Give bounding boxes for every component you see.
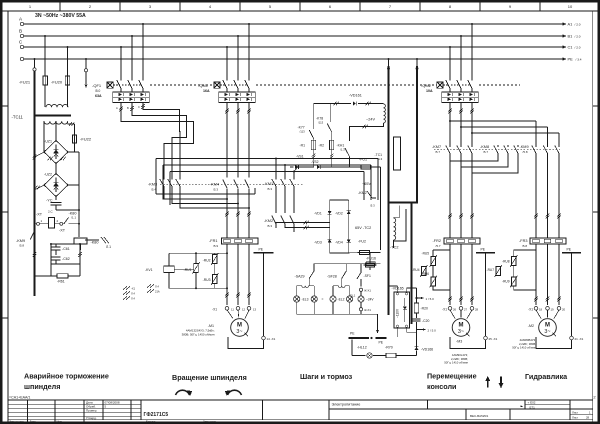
svg-text:Провер.: Провер. (86, 408, 97, 412)
svg-text:-RU7: -RU7 (487, 268, 495, 272)
svg-text:-SF1: -SF1 (364, 274, 371, 278)
svg-text:-R70: -R70 (385, 346, 393, 350)
svg-text:Ж-X1: Ж-X1 (364, 308, 371, 312)
svg-text:/ 2.0: / 2.0 (575, 46, 581, 50)
svg-text:-X1: -X1 (212, 308, 217, 312)
svg-text:26: 26 (453, 307, 457, 311)
svg-text:Утверд.: Утверд. (86, 416, 97, 420)
svg-text:-TC2: -TC2 (390, 246, 398, 250)
svg-text:-FU22: -FU22 (80, 137, 92, 142)
svg-text:21А: 21А (155, 290, 160, 294)
svg-text:-EL3: -EL3 (302, 297, 309, 301)
svg-text:/5.4: /5.4 (151, 188, 156, 192)
svg-text:-RU5: -RU5 (422, 252, 430, 256)
svg-text:-VD3: -VD3 (314, 241, 322, 245)
svg-text:/5.7: /5.7 (435, 150, 440, 154)
svg-text:-VD161: -VD161 (349, 94, 362, 98)
svg-text:C1: C1 (568, 45, 573, 50)
svg-text:PE: PE (567, 248, 572, 252)
svg-text:C: C (138, 105, 140, 109)
svg-text:-QM1: -QM1 (198, 83, 209, 88)
svg-text:/5.3: /5.3 (370, 204, 375, 208)
svg-text:-KM8: -KM8 (480, 145, 489, 149)
svg-text:/113: /113 (300, 130, 306, 134)
svg-text:/5.8: /5.8 (523, 150, 528, 154)
svg-text:A: A (116, 106, 118, 110)
svg-text:/ 2.0: / 2.0 (575, 35, 581, 39)
svg-text:-TC11: -TC11 (12, 115, 24, 120)
svg-text:B: B (127, 106, 129, 110)
svg-text:28: 28 (475, 307, 479, 311)
svg-text:-RU2: -RU2 (203, 259, 211, 263)
svg-text:-YC: -YC (46, 199, 53, 203)
svg-text:-XT: -XT (36, 213, 43, 217)
svg-text:-VS2: -VS2 (311, 160, 319, 164)
svg-text:/5.8: /5.8 (522, 244, 527, 248)
svg-text:-M1: -M1 (208, 324, 214, 328)
svg-text:380В; 50Гц; 1450 об/мин: 380В; 50Гц; 1450 об/мин (182, 333, 215, 337)
svg-text:B1: B1 (568, 34, 573, 39)
svg-text:-RU8: -RU8 (502, 260, 510, 264)
svg-text:/5.7: /5.7 (483, 150, 488, 154)
svg-text:50Гц; 1410 об/мин: 50Гц; 1410 об/мин (512, 346, 536, 350)
svg-text:-FU20: -FU20 (51, 80, 63, 85)
svg-text:/5.3: /5.3 (267, 187, 272, 191)
svg-text:-UZ1: -UZ1 (44, 140, 52, 144)
svg-text:/5.3: /5.3 (267, 224, 272, 228)
svg-text:-C20: -C20 (422, 319, 429, 323)
svg-text:Л.1: Л.1 (106, 245, 111, 249)
svg-text:-X1: -X1 (528, 308, 533, 312)
svg-text:/1.3: /1.3 (340, 148, 345, 152)
svg-text:-FR3: -FR3 (519, 239, 527, 243)
svg-text:/1.3: /1.3 (378, 157, 383, 161)
svg-text:Бланка: Бланка (146, 420, 156, 424)
svg-text:/1.1: /1.1 (71, 216, 76, 220)
svg-text:B: B (19, 29, 22, 34)
svg-text:PE: PE (259, 248, 264, 252)
svg-text:-KM9: -KM9 (520, 145, 529, 149)
svg-text:-KM7: -KM7 (432, 145, 441, 149)
svg-text:M: M (545, 323, 550, 329)
svg-text:20: 20 (562, 307, 566, 311)
svg-text:-KM2: -KM2 (358, 191, 367, 195)
svg-text:/ 3.4: / 3.4 (576, 58, 582, 62)
svg-text:-XT: -XT (59, 229, 66, 233)
svg-text:14 -X1: 14 -X1 (267, 337, 276, 341)
svg-text:3N ~50Hz ~380V 55A: 3N ~50Hz ~380V 55A (35, 13, 86, 19)
svg-text:-VD1: -VD1 (314, 212, 322, 216)
svg-text:-SA29: -SA29 (295, 275, 305, 279)
svg-text:/5.0: /5.0 (95, 89, 101, 93)
svg-text:Л.4: Л.4 (131, 292, 135, 296)
svg-text:Лист: Лист (572, 410, 579, 414)
svg-text:=: = (322, 297, 324, 301)
svg-text:13: 13 (253, 307, 257, 311)
svg-text:-R61: -R61 (57, 280, 65, 284)
svg-text:Шаги и тормоз: Шаги и тормоз (300, 372, 353, 381)
svg-text:-X1: -X1 (442, 308, 447, 312)
svg-text:63A: 63A (95, 94, 102, 98)
svg-text:-SF28: -SF28 (327, 275, 337, 279)
svg-text:28: 28 (586, 416, 590, 420)
svg-text:-KV1: -KV1 (145, 268, 153, 272)
svg-text:/5.3: /5.3 (213, 188, 218, 192)
svg-text:-R20: -R20 (421, 307, 428, 311)
svg-text:1 / 5.0: 1 / 5.0 (426, 297, 435, 301)
svg-text:~110V: ~110V (395, 308, 399, 318)
svg-text:Вращение шпинделя: Вращение шпинделя (172, 373, 247, 382)
svg-text:-VS1: -VS1 (296, 155, 304, 159)
svg-text:E71: E71 (530, 405, 536, 409)
svg-text:-KM2: -KM2 (264, 219, 273, 223)
svg-text:21 -X1: 21 -X1 (575, 337, 584, 341)
svg-text:/5.9: /5.9 (213, 244, 218, 248)
svg-text:-HL12: -HL12 (357, 346, 367, 350)
svg-text:PE: PE (481, 248, 486, 252)
svg-text:~65V: ~65V (362, 182, 371, 186)
svg-text:/5.7: /5.7 (436, 244, 441, 248)
svg-text:Изменения: Изменения (9, 420, 24, 424)
svg-text:Лист: Лист (572, 416, 579, 420)
svg-text:M: M (459, 323, 464, 329)
svg-text:-FU16: -FU16 (366, 257, 376, 261)
svg-text:+ E02: + E02 (528, 401, 536, 405)
svg-text:3~: 3~ (458, 329, 464, 335)
svg-text:EL1: EL1 (350, 294, 356, 298)
svg-text:25 -X1: 25 -X1 (489, 337, 498, 341)
svg-text:-FU2: -FU2 (358, 240, 366, 244)
svg-text:PE: PE (379, 341, 384, 345)
svg-text:10: 10 (568, 4, 573, 9)
svg-text:Аварийное торможение: Аварийное торможение (24, 372, 109, 381)
svg-text:-EL2: -EL2 (338, 297, 345, 301)
svg-text:Дата: Дата (30, 420, 37, 424)
svg-text:-RU9: -RU9 (502, 280, 510, 284)
svg-text:-R1: -R1 (300, 144, 306, 148)
svg-text:Заменило: Заменило (203, 420, 216, 424)
svg-text:~24V: ~24V (366, 118, 375, 122)
svg-text:-RU1: -RU1 (184, 268, 192, 272)
svg-text:ВЕС-ВА5И31: ВЕС-ВА5И31 (470, 414, 489, 418)
svg-text:-VD166: -VD166 (421, 348, 433, 352)
svg-text:-RU4: -RU4 (412, 268, 420, 272)
svg-text:-FU1: -FU1 (359, 158, 367, 162)
svg-text:Л.4: Л.4 (131, 297, 135, 301)
svg-text:-KM9: -KM9 (16, 239, 25, 243)
svg-text:-R2: -R2 (319, 144, 325, 148)
svg-text:-KM1: -KM1 (264, 182, 273, 186)
svg-text:-FR2: -FR2 (433, 239, 441, 243)
svg-text:19: 19 (551, 307, 555, 311)
svg-text:/113: /113 (318, 121, 324, 125)
svg-text:16A: 16A (203, 89, 210, 93)
svg-text:12: 12 (242, 307, 246, 311)
svg-text:-KM4: -KM4 (210, 183, 219, 187)
svg-text:07/08/2008: 07/08/2008 (105, 400, 120, 404)
svg-text:Имя: Имя (57, 420, 63, 424)
svg-text:-VD2: -VD2 (335, 212, 343, 216)
svg-text:=CA1+EAA/1: =CA1+EAA/1 (9, 396, 30, 400)
svg-text:-FR1: -FR1 (209, 239, 217, 243)
svg-text:27: 27 (464, 307, 468, 311)
svg-text:18: 18 (539, 307, 543, 311)
svg-text:ГФ2171С5: ГФ2171С5 (144, 412, 169, 418)
svg-text:50Гц; 1410 об/мин: 50Гц; 1410 об/мин (444, 361, 468, 365)
svg-text:-M2: -M2 (528, 324, 534, 328)
svg-text:/ 2.0: / 2.0 (575, 23, 581, 27)
svg-text:Электропитание: Электропитание (332, 402, 361, 406)
svg-text:M: M (237, 323, 242, 329)
svg-text:-UZ2: -UZ2 (44, 173, 52, 177)
svg-text:шпинделя: шпинделя (24, 382, 60, 391)
svg-text:Гидравлика: Гидравлика (525, 372, 568, 381)
svg-text:A1: A1 (568, 22, 573, 27)
svg-text:консоли: консоли (427, 382, 456, 391)
svg-text:Л.4: Л.4 (155, 285, 159, 289)
svg-text:-C62: -C62 (62, 257, 70, 261)
svg-text:-C61: -C61 (62, 247, 70, 251)
svg-text:-M3: -M3 (456, 340, 462, 344)
svg-text:3~: 3~ (236, 329, 242, 335)
svg-text:-X1: -X1 (131, 287, 136, 291)
svg-text:-RU3: -RU3 (203, 278, 211, 282)
svg-text:-VD4: -VD4 (335, 241, 343, 245)
svg-text:10A: 10A (426, 89, 433, 93)
svg-text:65V -TC2: 65V -TC2 (355, 226, 371, 230)
svg-text:-K80: -K80 (91, 241, 99, 245)
svg-text:3~: 3~ (544, 329, 550, 335)
svg-text:-QF1: -QF1 (92, 83, 102, 88)
svg-text:Перемещение: Перемещение (427, 372, 477, 381)
svg-text:-FU21: -FU21 (19, 80, 31, 85)
svg-text:PE: PE (350, 332, 355, 336)
svg-text:Ж-X1: Ж-X1 (364, 288, 371, 292)
svg-text:-QM2: -QM2 (421, 83, 432, 88)
svg-text:PE: PE (568, 57, 574, 62)
svg-text:/5.8: /5.8 (19, 244, 24, 248)
svg-text:11: 11 (231, 307, 234, 311)
svg-text:~24V: ~24V (366, 297, 374, 301)
svg-text:2 / 5.0: 2 / 5.0 (428, 328, 437, 332)
